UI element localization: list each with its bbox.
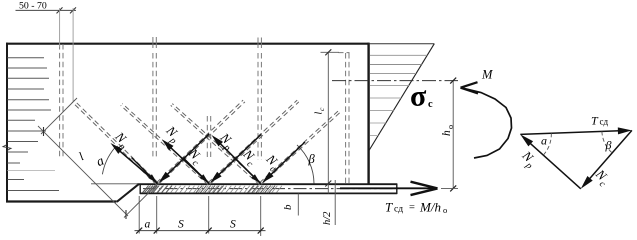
stirrup S4 dashed pair — [258, 38, 261, 49]
bent-up bar B3 strut up-right (double dashed) — [260, 109, 342, 184]
b extension line — [297, 194, 299, 216]
shear flow arrow Tsd — [340, 187, 436, 189]
svg-text:сд: сд — [600, 117, 609, 127]
beam left edge — [6, 43, 8, 203]
bent-up bar B2 up-left (double dashed) — [121, 104, 210, 185]
bottom extension line at node 3 — [260, 196, 262, 236]
bottom extension line at node 1 — [156, 196, 158, 234]
alpha angle arc — [102, 148, 114, 174]
svg-text:S: S — [230, 219, 236, 231]
b label — [282, 204, 294, 210]
label Np 2 — [160, 122, 184, 146]
force arrow Np at node 3 — [219, 143, 260, 184]
bar anchor arrow into node 1 — [132, 158, 152, 178]
bent-up bar B1 strut up-right (double dashed) — [157, 100, 245, 184]
bottom dimension slash tick — [136, 228, 142, 234]
plate top edge — [137, 183, 397, 185]
l label — [76, 149, 86, 163]
svg-text:S: S — [178, 219, 184, 231]
left support hatching — [8, 58, 60, 191]
50-70 tick 2 — [70, 7, 76, 13]
l dimension line — [38, 126, 128, 216]
force triangle Nc side — [589, 130, 632, 179]
strut arrow Nc into node 2 — [218, 135, 261, 176]
top thin extension line — [369, 43, 435, 45]
svg-text:=: = — [409, 203, 415, 214]
l dimension tick top — [43, 127, 45, 136]
svg-text:Т: Т — [385, 200, 393, 215]
50-70 tick 1 — [57, 7, 63, 13]
beam bottom-left edge — [6, 200, 117, 202]
svg-text:h: h — [441, 130, 453, 136]
label Nc 2 — [237, 146, 261, 170]
lc top tick line — [321, 51, 340, 53]
bent-up bar B1 up-left (double dashed) — [72, 100, 158, 185]
50-70 dimension line — [16, 9, 77, 11]
alpha reference dashed horizontal — [91, 183, 138, 185]
stirrup S2 dashed pair — [153, 37, 156, 48]
h/2 label — [322, 211, 333, 225]
strut arrow Nc into node 1 — [166, 134, 209, 176]
beta angle arc — [297, 145, 314, 184]
neutral axis dash-dot line — [332, 80, 458, 82]
force triangle Nc label — [589, 166, 613, 190]
bottom dimension slash tick — [154, 228, 160, 234]
svg-text:σ: σ — [410, 80, 427, 113]
h0 bottom tick line — [441, 187, 458, 189]
beam top edge — [6, 43, 369, 45]
force arrow Np at node 2 — [170, 147, 209, 184]
svg-text:c: c — [428, 99, 433, 110]
plate right end cap — [396, 184, 398, 194]
svg-text:a: a — [145, 219, 151, 231]
stirrup S5 dashed pair — [346, 53, 349, 184]
faint long hatch line — [8, 170, 56, 172]
h0 dimension line — [452, 81, 454, 189]
bar anchor arrow into node 2 — [183, 158, 203, 178]
label Nc 1 — [182, 145, 206, 169]
plate anchor zone light hatch — [143, 186, 282, 193]
bottom extension line at node 2 — [208, 196, 210, 234]
svg-text:50 - 70: 50 - 70 — [19, 1, 47, 12]
stress diagram hatching — [370, 55, 427, 73]
l dimension tick bottom — [125, 210, 127, 219]
plate bottom edge — [140, 192, 397, 194]
bent-up bar B2 strut up-right (double dashed) — [208, 100, 299, 184]
weld hatch at node 1 — [145, 186, 173, 193]
bottom dimension slash tick — [206, 228, 212, 234]
svg-text:o: o — [446, 125, 455, 129]
lc dimension line — [327, 52, 329, 193]
l dimension extension line top — [41, 98, 77, 134]
force triangle Tsd side — [520, 131, 620, 135]
bottom dimension slash tick — [258, 228, 264, 234]
weld hatch at node 2 — [196, 186, 224, 193]
stirrup S1 dashed pair — [60, 44, 63, 158]
h0 slash bottom — [450, 185, 456, 191]
strut arrow Nc into node 3 — [270, 142, 305, 175]
weld hatch at plate left end — [143, 186, 158, 193]
plate left end cap — [139, 184, 141, 194]
force triangle Np label — [516, 147, 540, 171]
svg-text:b: b — [282, 204, 294, 210]
label Np 3 — [214, 129, 238, 153]
beam dapped step — [117, 184, 139, 202]
l dimension extension line bottom — [124, 184, 158, 218]
stirrup S5 top dashed bend — [339, 52, 350, 54]
label Nc 3 — [260, 151, 284, 175]
break mark zigzag on left edge — [3, 145, 11, 151]
force arrow Np at node 1 — [119, 150, 158, 183]
force triangle beta arc dashed — [602, 132, 612, 153]
h0 label — [441, 125, 455, 136]
svg-text:β: β — [605, 138, 612, 152]
h/2 extension line — [334, 180, 336, 225]
svg-text:M: M — [481, 68, 493, 82]
h0 slash top — [450, 78, 456, 84]
svg-text:M/h: M/h — [419, 200, 441, 215]
svg-text:o: o — [443, 205, 447, 215]
plate centerline dash-dot — [143, 188, 395, 190]
svg-text:a: a — [541, 134, 547, 148]
bottom extension line at plate end — [138, 196, 140, 234]
force triangle Np side — [529, 142, 581, 188]
svg-text:сд: сд — [394, 205, 403, 215]
bottom dimension line — [135, 230, 266, 232]
alpha label — [94, 153, 106, 170]
50-70 extension line 1 — [59, 8, 61, 47]
beam right edge — [367, 43, 369, 184]
lc label — [314, 107, 327, 115]
stress diagram hypotenuse — [369, 44, 434, 151]
lc slash top — [325, 49, 331, 55]
svg-text:β: β — [308, 152, 316, 166]
svg-text:h/2: h/2 — [322, 211, 333, 225]
lc slash bottom — [325, 181, 331, 187]
label Np 1 — [109, 128, 133, 152]
stirrup S3 dashed pair — [207, 116, 210, 157]
bent-up bar B3 up-left (double dashed) — [171, 104, 262, 185]
moment arrow M curved — [462, 88, 512, 158]
50-70 extension line 2 down to bar top — [72, 8, 74, 101]
bar anchor arrow into node 3 — [235, 158, 255, 178]
weld hatch at node 3 — [248, 186, 276, 193]
force triangle alpha arc dashed — [543, 133, 551, 155]
